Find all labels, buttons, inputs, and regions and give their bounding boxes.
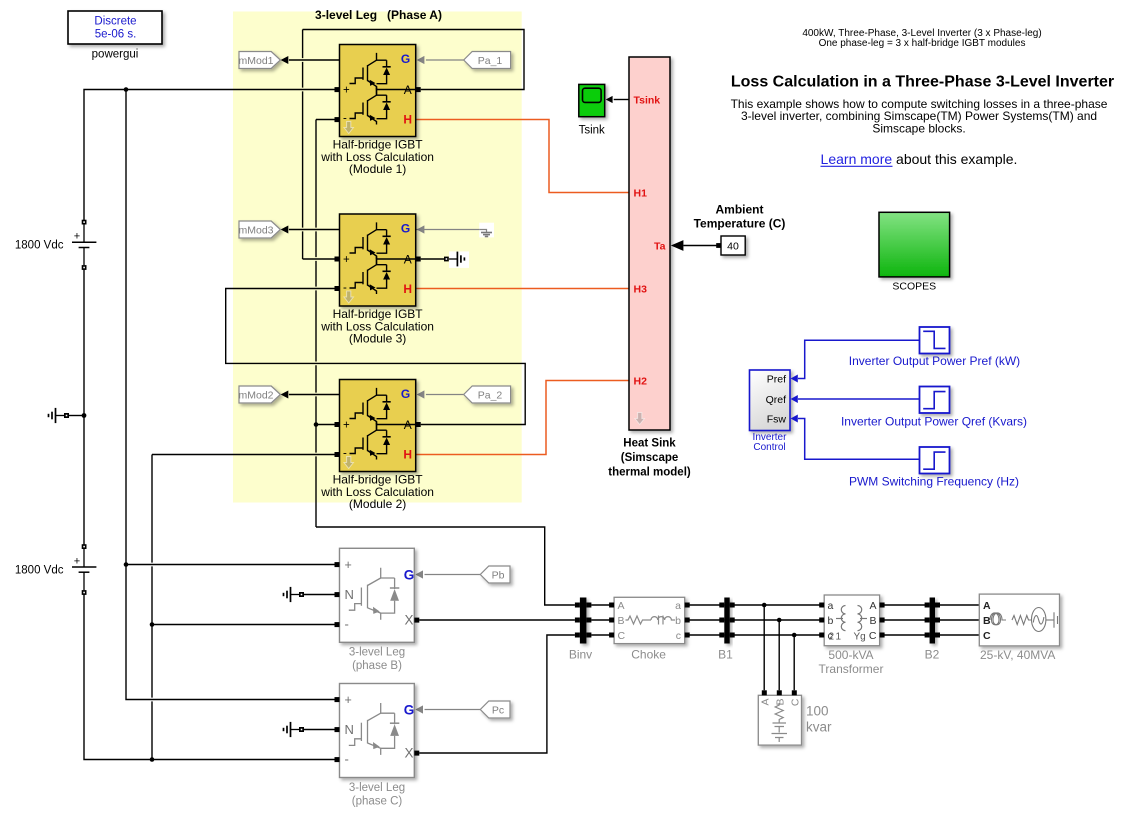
- wire: module1 H to heat sink H1: [416, 120, 629, 193]
- svg-text:3-level Leg (Phase A): 3-level Leg (Phase A): [315, 8, 442, 22]
- arrowhead into leg C G: [415, 705, 423, 713]
- svg-text:Yg: Yg: [854, 632, 866, 643]
- measurement bar B2: [925, 598, 940, 662]
- svg-text:3-level Leg: 3-level Leg: [349, 782, 405, 794]
- blue wires from step sources to control: [798, 340, 920, 459]
- svg-text:Learn more about this example.: Learn more about this example.: [821, 151, 1018, 167]
- half-bridge module 2: [320, 380, 434, 512]
- ground at leg C N: [284, 722, 305, 737]
- svg-text:b: b: [675, 615, 681, 627]
- svg-text:a: a: [675, 600, 681, 612]
- svg-text:B: B: [618, 615, 625, 627]
- svg-text:(phase C): (phase C): [352, 795, 403, 807]
- node: junction x316 to module2 plus: [314, 422, 319, 427]
- svg-text:C: C: [618, 630, 626, 642]
- 100 kvar load (rotated): [758, 690, 832, 745]
- wire: transformer to B2 (A,B,C): [880, 605, 930, 635]
- svg-text:Pb: Pb: [492, 569, 505, 581]
- measurement bar B1: [718, 598, 735, 662]
- svg-text:B: B: [983, 615, 991, 627]
- svg-text:A: A: [618, 600, 625, 612]
- wire: module2 H to heat sink H2: [416, 381, 629, 455]
- svg-text:-: -: [345, 616, 349, 631]
- svg-text:Temperature (C): Temperature (C): [694, 217, 786, 231]
- Choke block: [609, 597, 690, 661]
- svg-text:H2: H2: [634, 375, 648, 387]
- from tag Pa_1: [464, 52, 511, 69]
- svg-text:G: G: [404, 567, 415, 582]
- wire: from Pa_1 to module1 G: [426, 59, 464, 61]
- svg-text:2: 2: [829, 632, 835, 643]
- powergui block: [68, 11, 162, 61]
- svg-text:H: H: [403, 448, 412, 462]
- svg-text:N: N: [345, 587, 354, 602]
- svg-text:(Simscape: (Simscape: [621, 452, 679, 464]
- svg-text:(Module 2): (Module 2): [349, 497, 406, 511]
- ground (rotated right) at module3 A: [444, 251, 469, 268]
- node: junction x152 to leg B minus: [150, 622, 155, 627]
- node: ground junction on DC midpoint: [82, 413, 87, 418]
- svg-text:C: C: [983, 630, 991, 642]
- gray gate wires: [416, 60, 487, 710]
- svg-text:X: X: [404, 746, 413, 761]
- svg-text:1800 Vdc: 1800 Vdc: [15, 240, 64, 252]
- svg-text:+: +: [74, 231, 80, 243]
- wire: module1 minus rail x=316 down to Binv A (gaps at crossings): [316, 119, 335, 121]
- arrowhead into module3 G: [417, 225, 425, 233]
- heat sink block: [608, 57, 691, 479]
- svg-text:+: +: [343, 254, 350, 266]
- svg-text:PWM Switching Frequency (Hz): PWM Switching Frequency (Hz): [849, 475, 1019, 489]
- wire: branch to leg B minus: [152, 624, 335, 626]
- svg-text:Ambient: Ambient: [716, 203, 764, 217]
- svg-text:40: 40: [727, 241, 739, 253]
- svg-text:H: H: [403, 282, 412, 296]
- goto tag mMod1: [238, 52, 280, 69]
- svg-text:Ta: Ta: [654, 240, 666, 252]
- Inverter Control subsystem: [750, 370, 798, 453]
- goto tag mMod3: [238, 221, 280, 238]
- from tag Pa_2: [464, 386, 511, 403]
- goto tag mMod2: [238, 386, 280, 403]
- step source Qref: [841, 387, 1027, 429]
- svg-text:Fsw: Fsw: [767, 413, 787, 425]
- wire: module2 minus rail x=152 down (gaps at crossings): [152, 454, 335, 456]
- svg-text:Pref: Pref: [767, 373, 786, 385]
- svg-text:powergui: powergui: [92, 49, 139, 61]
- svg-text:B1: B1: [718, 648, 733, 662]
- node: junction bottom rail / x152 drop: [150, 757, 155, 762]
- svg-text:X: X: [404, 613, 413, 628]
- svg-text:Pa_2: Pa_2: [478, 389, 503, 401]
- svg-text:kvar: kvar: [806, 720, 832, 735]
- wire: module3 m output to goto mMod3: [289, 229, 340, 231]
- 500-kVA transformer: [819, 595, 885, 676]
- wire: Choke to B1 (A,B,C): [685, 605, 725, 635]
- svg-text:+: +: [343, 84, 350, 96]
- svg-text:Heat Sink: Heat Sink: [623, 438, 676, 450]
- node: junction phase B to 100kvar: [777, 618, 782, 623]
- wire: DC bus top, battery V1 plus to module1 plus input: [84, 90, 335, 223]
- svg-text:A: A: [760, 699, 772, 706]
- svg-text:+: +: [345, 693, 352, 707]
- svg-text:+: +: [74, 555, 80, 567]
- half-bridge module 3: [320, 214, 434, 346]
- wire: module2 m output to goto mMod2: [289, 394, 340, 396]
- measurement bar Binv: [569, 598, 592, 662]
- 25-kV 40MVA source: [979, 594, 1059, 662]
- svg-text:A: A: [983, 600, 991, 612]
- step source Fsw: [849, 447, 1019, 489]
- svg-text:Pa_1: Pa_1: [478, 55, 503, 67]
- wire: ground stub to DC midpoint: [69, 415, 84, 417]
- svg-text:(Module 3): (Module 3): [349, 332, 406, 346]
- svg-text:N: N: [345, 722, 354, 737]
- battery V1 1800 Vdc: [15, 220, 97, 270]
- wire: B2 to 25-kV source (A,B,C): [935, 605, 979, 635]
- svg-text:G: G: [401, 222, 410, 236]
- wire: taps down to 100 kvar load: [764, 605, 794, 690]
- svg-text:3-level Leg: 3-level Leg: [349, 646, 405, 658]
- svg-text:A: A: [404, 252, 412, 266]
- svg-text:Simscape blocks.: Simscape blocks.: [872, 121, 965, 135]
- wire: from Pa_2 to module2 G: [426, 394, 464, 396]
- svg-text:B: B: [775, 699, 787, 706]
- node: junction mid rail to leg B plus: [124, 562, 129, 567]
- svg-text:500-kVA: 500-kVA: [828, 648, 873, 662]
- svg-text:c: c: [676, 630, 681, 642]
- svg-text:Discrete: Discrete: [94, 16, 136, 28]
- wire: mid rail x=126 from top bus down to leg C plus: [126, 90, 335, 700]
- svg-text:Choke: Choke: [631, 648, 666, 662]
- arrowhead into module2 G: [417, 390, 425, 398]
- svg-text:b: b: [828, 615, 834, 627]
- wire: module1 m output to goto mMod1: [289, 59, 340, 61]
- wire: heat sink Tsink output to scope: [614, 99, 629, 101]
- resistor + inductor icon: [626, 616, 675, 625]
- wire: from Pb to leg B G: [425, 574, 481, 576]
- svg-text:1: 1: [836, 632, 842, 643]
- wire: from Pc to leg C G: [425, 709, 481, 711]
- yellow area (Phase A group): [233, 12, 522, 503]
- svg-text:Tsink: Tsink: [634, 94, 661, 106]
- wire: leg B N to ground: [304, 594, 335, 596]
- svg-text:Loss Calculation in a Three-Ph: Loss Calculation in a Three-Phase 3-Leve…: [731, 73, 1114, 90]
- svg-text:A: A: [404, 83, 412, 97]
- svg-text:B2: B2: [925, 648, 940, 662]
- wire: leg C X output up to Binv C: [419, 635, 575, 753]
- wire: module2 A output loop to module3 minus: [226, 289, 526, 425]
- 3-level leg phase B: [335, 548, 420, 672]
- battery V2 1800 Vdc: [15, 544, 97, 595]
- ground at DC midpoint: [49, 408, 70, 423]
- svg-text:SCOPES: SCOPES: [892, 281, 936, 293]
- wire: Binv to Choke (A,B,C): [591, 605, 614, 635]
- svg-text:G: G: [404, 703, 415, 718]
- wire: battery V2 minus down and right to leg C minus: [84, 593, 335, 760]
- svg-text:Binv: Binv: [569, 648, 592, 662]
- step source Pref: [849, 327, 1020, 368]
- svg-text:a: a: [828, 600, 834, 612]
- ground at leg B N: [284, 587, 305, 602]
- svg-text:mMod3: mMod3: [238, 224, 273, 236]
- svg-text:G: G: [401, 52, 410, 66]
- wire: leg B X output to Binv B: [419, 619, 575, 621]
- wire: leg C N to ground: [304, 729, 335, 731]
- svg-text:Inverter Output Power Qref (Kv: Inverter Output Power Qref (Kvars): [841, 415, 1027, 429]
- svg-text:One phase-leg = 3 x half-bridg: One phase-leg = 3 x half-bridge IGBT mod…: [819, 38, 1026, 49]
- from tag Pb: [480, 566, 510, 583]
- svg-text:400kW, Three-Phase, 3-Level In: 400kW, Three-Phase, 3-Level Inverter (3 …: [802, 28, 1041, 39]
- svg-text:mMod1: mMod1: [238, 55, 273, 67]
- wire: module3 G to gray ground: [416, 230, 487, 233]
- svg-text:C: C: [790, 698, 802, 706]
- svg-text:G: G: [401, 387, 410, 401]
- svg-text:100: 100: [806, 704, 829, 719]
- svg-text:thermal model): thermal model): [608, 467, 691, 479]
- svg-text:+: +: [345, 558, 352, 572]
- winding coils: [836, 606, 867, 631]
- arrowhead into module1 G: [417, 56, 425, 64]
- svg-text:C: C: [869, 630, 877, 642]
- svg-text:Inverter Output Power Pref (kW: Inverter Output Power Pref (kW): [849, 354, 1020, 368]
- wire: module3 A to ground (rotated): [421, 258, 444, 260]
- svg-text:(phase B): (phase B): [352, 660, 402, 672]
- svg-text:+: +: [343, 419, 350, 431]
- node: junction phase A to 100kvar: [762, 603, 767, 608]
- wire: module1 A output loop over the top to module3 plus: [303, 30, 524, 90]
- wire: constant 40 to heat sink Ta: [683, 245, 718, 247]
- from tag Pc: [480, 701, 510, 718]
- node: junction phase C to 100kvar: [792, 633, 797, 638]
- node: junction top bus / mid rail: [124, 87, 129, 92]
- gray ground (pointing down) at module3 G: [479, 223, 494, 238]
- svg-text:H3: H3: [634, 283, 648, 295]
- constant 40: [716, 236, 745, 255]
- wire: branch to leg B plus: [126, 564, 335, 566]
- svg-text:A: A: [404, 418, 412, 432]
- svg-text:H1: H1: [634, 187, 648, 199]
- svg-text:(Module 1): (Module 1): [349, 162, 406, 176]
- svg-text:25-kV, 40MVA: 25-kV, 40MVA: [980, 648, 1055, 662]
- 3-level leg phase C: [335, 684, 420, 808]
- wire: battery V1 minus down to ground junction and battery V2 plus: [83, 268, 85, 547]
- svg-text:Transformer: Transformer: [819, 662, 884, 676]
- svg-text:Pc: Pc: [492, 704, 504, 716]
- svg-text:5e-06 s.: 5e-06 s.: [95, 28, 137, 40]
- SCOPES subsystem: [879, 212, 950, 292]
- wire: branch to module2 plus: [316, 424, 335, 426]
- svg-text:A: A: [869, 600, 876, 612]
- svg-text:mMod2: mMod2: [238, 389, 273, 401]
- half-bridge module 1: [320, 45, 434, 177]
- svg-text:H: H: [403, 113, 412, 127]
- svg-text:-: -: [345, 752, 349, 767]
- svg-text:Control: Control: [753, 442, 785, 453]
- svg-text:B: B: [869, 615, 876, 627]
- wire: module3 H to heat sink H3: [416, 288, 629, 290]
- svg-text:1800 Vdc: 1800 Vdc: [15, 564, 64, 576]
- scope Tsink: [579, 84, 605, 136]
- svg-text:Tsink: Tsink: [579, 125, 605, 137]
- svg-text:Qref: Qref: [766, 394, 787, 406]
- wire: B1 to transformer (A,B,C): [730, 605, 825, 635]
- arrowhead into leg B G: [415, 570, 423, 578]
